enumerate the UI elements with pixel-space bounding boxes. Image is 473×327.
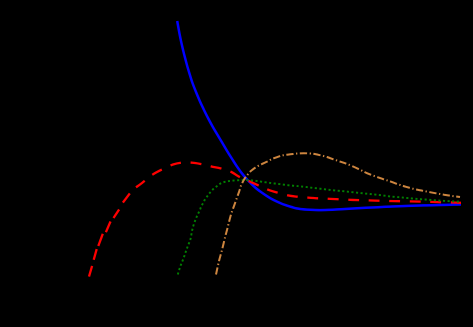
curve: tan dash-dot (unimodal, late peak) (216, 153, 460, 274)
curve: red dashed, rising left segment (explicit dashes) (89, 193, 130, 276)
curve: green dotted (unimodal, mid peak) (178, 180, 461, 274)
curve: blue solid (bathtub-shaped) (177, 21, 461, 210)
curve: red dashed, peak and falling segment (136, 162, 461, 202)
